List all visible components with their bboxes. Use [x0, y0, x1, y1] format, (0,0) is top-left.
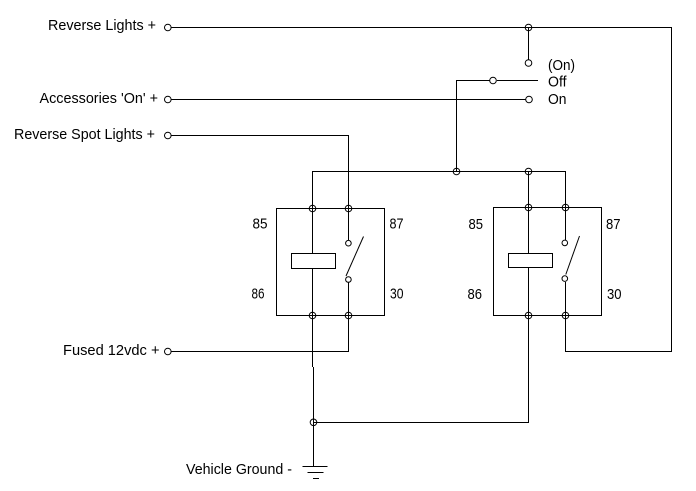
node: Reverse Lights + terminal	[165, 24, 172, 31]
wire: bottom-right horizontal to right relay pin 30	[566, 351, 673, 353]
svg-text:Reverse Lights +: Reverse Lights +	[48, 17, 156, 34]
svg-text:87: 87	[390, 216, 404, 233]
node: junction top wire / (On) branch	[525, 24, 532, 31]
svg-text:86: 86	[252, 286, 265, 303]
left relay K1 box	[277, 209, 385, 316]
node: switch contact (On)	[525, 60, 532, 67]
left relay coil rectangle	[292, 254, 336, 269]
wire: Reverse Lights + top horizontal	[171, 27, 672, 29]
wire: switch common vertical down to bus	[456, 80, 458, 172]
wire: right relay pin 86 down to ground bus	[528, 315, 530, 423]
right relay contact circle upper (87)	[562, 240, 568, 246]
wire: switch common lead horizontal	[457, 80, 490, 82]
right relay switch lever	[566, 236, 580, 275]
svg-text:30: 30	[390, 286, 404, 303]
right relay coil rectangle	[509, 254, 553, 268]
svg-text:Reverse Spot Lights +: Reverse Spot Lights +	[14, 126, 155, 143]
wire: bus drop to right relay pin 85	[528, 171, 530, 207]
node: Reverse Spot Lights + terminal	[165, 132, 172, 139]
svg-text:(On): (On)	[548, 57, 575, 74]
wire: Accessories 'On' + horizontal to On contact	[171, 99, 526, 101]
right relay pin 86 bottom circle	[525, 312, 532, 319]
wire: right relay pin 30 drop	[565, 315, 567, 352]
svg-text:30: 30	[607, 286, 622, 303]
left relay contact circle upper (87)	[346, 240, 352, 246]
wire: Fused 12vdc + horizontal	[171, 351, 349, 353]
wire: left relay pin 86 down to ground junction	[312, 315, 314, 367]
left relay pin 85 top circle	[309, 205, 316, 212]
left relay pin 86 bottom circle	[309, 312, 316, 319]
node: Fused 12vdc + terminal	[165, 348, 172, 355]
svg-text:Off: Off	[548, 74, 567, 91]
wire: bus drop to left relay pin 85	[312, 171, 314, 208]
right relay contact lead from pin 87	[565, 208, 567, 241]
left relay pin 30 bottom circle	[345, 312, 352, 319]
svg-text:87: 87	[606, 216, 621, 233]
left relay coil vertical 85-86	[312, 209, 314, 316]
svg-text:On: On	[548, 91, 567, 108]
right relay pin 30 bottom circle	[562, 312, 569, 319]
left relay switch lever	[346, 237, 364, 277]
left relay contact circle lower (30)	[346, 277, 352, 283]
wire: ground bus horizontal	[314, 422, 529, 424]
wire: junction at top down to (On) switch contact	[528, 27, 530, 60]
wire: ground stem	[313, 422, 315, 466]
wire: bus drop to right relay pin 87	[565, 171, 567, 207]
right relay coil vertical 85-86	[528, 208, 530, 316]
right relay contact circle lower (30)	[562, 276, 568, 282]
left relay pin 87 top circle	[345, 205, 352, 212]
node: switch common pole	[490, 77, 497, 84]
svg-text:85: 85	[253, 216, 268, 233]
wire: left relay pin 30 drop to fused wire	[348, 315, 350, 352]
node: junction bus / right relay 85	[525, 168, 532, 175]
svg-text:Vehicle Ground -: Vehicle Ground -	[186, 461, 292, 478]
svg-text:85: 85	[469, 216, 484, 233]
right relay pin 85 top circle	[525, 204, 532, 211]
node: junction bus / switch common	[453, 168, 460, 175]
wire: Reverse Spot Lights + horizontal	[171, 135, 349, 137]
wire: coil supply bus horizontal y=171	[313, 171, 566, 173]
node: ground junction	[310, 419, 317, 426]
svg-text:Fused 12vdc +: Fused 12vdc +	[63, 342, 160, 359]
wire: switch lever (pointing to Off)	[497, 80, 538, 82]
left relay contact lead to pin 30	[348, 283, 350, 316]
right relay contact lead to pin 30	[565, 282, 567, 315]
svg-text:86: 86	[468, 286, 483, 303]
wire: right border vertical (top wire down to pin 30 feed)	[671, 27, 673, 352]
node: switch contact On	[526, 96, 533, 103]
wire: Reverse Spot Lights drop to left relay pin 87	[348, 135, 350, 208]
right relay K2 box	[494, 208, 602, 316]
ground symbol	[303, 466, 328, 468]
right relay pin 87 top circle	[562, 204, 569, 211]
svg-text:Accessories 'On' +: Accessories 'On' +	[40, 90, 159, 107]
node: Accessories 'On' + terminal	[165, 96, 172, 103]
left relay contact lead from pin 87	[348, 209, 350, 241]
